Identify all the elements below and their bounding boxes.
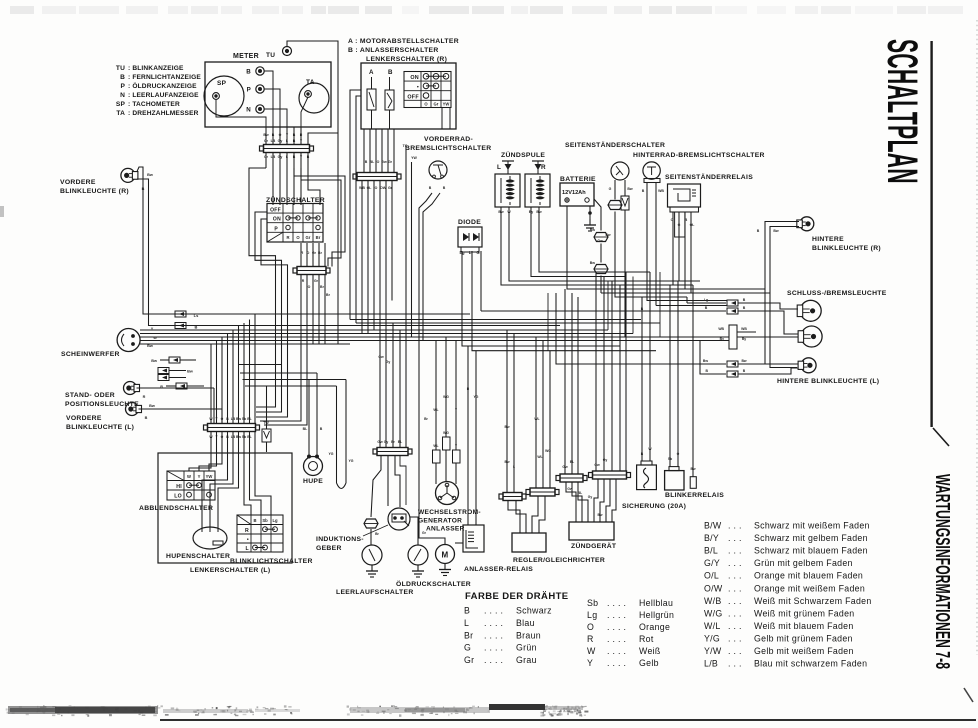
svg-text:Schwarz mit weißem Faden: Schwarz mit weißem Faden (754, 521, 870, 531)
svg-text:TW: TW (263, 421, 269, 425)
svg-text:Weiß mit Schwarzem Faden: Weiß mit Schwarzem Faden (754, 596, 872, 606)
svg-text:Y: Y (198, 474, 201, 479)
svg-text:TA: TA (306, 79, 315, 86)
svg-text:WL: WL (433, 408, 438, 412)
svg-text:By: By (742, 337, 746, 341)
svg-text:O: O (221, 417, 224, 421)
svg-text:L: L (513, 465, 515, 469)
svg-text:Gr: Gr (464, 655, 474, 665)
svg-text:Gr: Gr (264, 155, 269, 159)
svg-text:WG: WG (443, 431, 449, 435)
svg-text:Schwarz mit blauem Faden: Schwarz mit blauem Faden (754, 546, 868, 556)
svg-text:. . .: . . . (728, 633, 742, 643)
svg-text:Bw: Bw (236, 417, 241, 421)
svg-text:Sb: Sb (262, 518, 268, 523)
svg-text:L: L (469, 250, 472, 255)
svg-text:: FERNLICHTANZEIGE: : FERNLICHTANZEIGE (128, 74, 201, 81)
svg-text:. . . .: . . . . (607, 610, 626, 620)
svg-text:. . .: . . . (728, 558, 742, 568)
svg-text:. . . .: . . . . (484, 643, 503, 653)
svg-text:Bw: Bw (536, 210, 542, 214)
svg-text:O: O (307, 251, 310, 255)
svg-text:WL: WL (534, 417, 539, 421)
svg-text:B: B (195, 325, 198, 330)
svg-text:FARBE DER DRÄHTE: FARBE DER DRÄHTE (465, 591, 569, 602)
svg-text:INDUKTIONS-: INDUKTIONS- (316, 536, 364, 543)
svg-text:. . .: . . . (728, 621, 742, 631)
svg-text:DIODE: DIODE (458, 219, 481, 226)
svg-text:Bw: Bw (690, 467, 695, 471)
svg-text:W: W (153, 336, 157, 340)
svg-text:Bw: Bw (627, 187, 633, 191)
svg-text:Gy: Gy (384, 440, 389, 444)
svg-text:WB: WB (658, 189, 664, 193)
svg-text:Lg: Lg (587, 610, 597, 620)
svg-text:VORDERRAD-: VORDERRAD- (424, 136, 473, 143)
svg-text:ZÜNDGERÄT: ZÜNDGERÄT (571, 541, 617, 550)
svg-text:WG: WG (545, 449, 551, 453)
svg-text:BATTERIE: BATTERIE (560, 176, 596, 183)
svg-text:Braun: Braun (516, 630, 541, 640)
svg-text:BLINKLEUCHTE (R): BLINKLEUCHTE (R) (60, 188, 129, 195)
svg-text:ON: ON (273, 217, 281, 223)
svg-text:B: B (464, 606, 470, 616)
svg-text:L: L (497, 164, 501, 171)
svg-text:O/W: O/W (704, 583, 723, 593)
svg-text:B/L: B/L (704, 546, 718, 556)
svg-text:Gw: Gw (377, 440, 383, 444)
svg-text:SICHERUNG (20A): SICHERUNG (20A) (622, 503, 686, 510)
svg-text:Br: Br (318, 251, 323, 255)
svg-text:G: G (678, 223, 681, 227)
svg-text:HINTERE: HINTERE (812, 236, 844, 243)
svg-text:WB: WB (359, 186, 365, 190)
svg-text:Bw: Bw (147, 344, 153, 348)
svg-text:W/L: W/L (704, 621, 721, 631)
svg-text:Bw: Bw (741, 359, 746, 363)
svg-text:B: B (120, 74, 125, 81)
svg-text:L: L (464, 618, 469, 628)
svg-text:Bw: Bw (187, 370, 193, 374)
svg-text:. . . .: . . . . (484, 618, 503, 628)
svg-text:. . . .: . . . . (607, 646, 626, 656)
svg-text:Schwarz: Schwarz (516, 606, 552, 616)
svg-text:G: G (464, 643, 471, 653)
svg-text:Gr: Gr (434, 102, 439, 107)
svg-text:O: O (671, 218, 674, 222)
svg-text:OFF: OFF (270, 208, 281, 214)
svg-text:Grau: Grau (516, 655, 537, 665)
svg-text:: DREHZAHLMESSER: : DREHZAHLMESSER (128, 110, 199, 117)
svg-text:BL: BL (578, 491, 582, 495)
svg-text:. . .: . . . (728, 583, 742, 593)
svg-text:LB: LB (271, 139, 276, 143)
svg-text:YW: YW (443, 102, 450, 107)
svg-text:•: • (417, 85, 419, 91)
svg-text:WL: WL (537, 455, 542, 459)
svg-text:W: W (187, 474, 191, 479)
svg-text:Weiß mit grünem Faden: Weiß mit grünem Faden (754, 608, 855, 618)
svg-text:BL: BL (398, 440, 403, 444)
svg-text:W/B: W/B (704, 596, 722, 606)
svg-text:. . .: . . . (728, 521, 742, 531)
svg-text:. . . .: . . . . (484, 630, 503, 640)
svg-text:BLINKLICHTSCHALTER: BLINKLICHTSCHALTER (230, 558, 313, 565)
svg-text:. . .: . . . (728, 596, 742, 606)
svg-text:WB: WB (741, 327, 747, 331)
svg-text:Bw: Bw (504, 460, 509, 464)
svg-text:REGLER/GLEICHRICHTER: REGLER/GLEICHRICHTER (513, 557, 605, 564)
svg-text:Bw: Bw (149, 404, 155, 408)
svg-text:N: N (120, 92, 125, 99)
svg-text:. . . .: . . . . (607, 634, 626, 644)
svg-text:B: B (253, 518, 256, 523)
svg-text:Y/W: Y/W (704, 646, 722, 656)
svg-text:LO: LO (174, 494, 182, 500)
svg-text:Gr: Gr (312, 251, 317, 255)
svg-text:12V12Ah: 12V12Ah (562, 190, 586, 196)
svg-text:: ÖLDRUCKANZEIGE: : ÖLDRUCKANZEIGE (128, 81, 197, 90)
svg-text:YW: YW (206, 474, 213, 479)
svg-text:W/G: W/G (704, 608, 723, 618)
svg-text:. . .: . . . (728, 608, 742, 618)
svg-text:BL: BL (570, 460, 575, 464)
svg-text:Bw: Bw (598, 513, 603, 517)
svg-text:Bw: Bw (151, 359, 157, 363)
svg-text:: BLINKANZEIGE: : BLINKANZEIGE (128, 65, 184, 72)
svg-text:. . . .: . . . . (484, 655, 503, 665)
svg-text:Gw: Gw (562, 465, 568, 469)
svg-text:O/L: O/L (704, 571, 719, 581)
svg-text:Hellgrün: Hellgrün (639, 610, 674, 620)
svg-text:Weiß mit blauem Faden: Weiß mit blauem Faden (754, 621, 854, 631)
svg-text:Schwarz mit gelbem Faden: Schwarz mit gelbem Faden (754, 533, 868, 543)
svg-text:G: G (609, 187, 612, 191)
svg-text:Bw: Bw (605, 233, 610, 237)
svg-text:HI: HI (176, 484, 182, 490)
svg-text:R: R (245, 528, 249, 534)
svg-text:OFF: OFF (407, 94, 419, 100)
svg-text:ÖLDRUCKSCHALTER: ÖLDRUCKSCHALTER (396, 579, 471, 588)
svg-text:ANLASSER: ANLASSER (426, 526, 465, 533)
svg-text:A: A (369, 69, 374, 76)
svg-text:BLINKERRELAIS: BLINKERRELAIS (665, 492, 724, 499)
svg-text:Gw: Gw (381, 160, 387, 164)
svg-text:STAND- ODER: STAND- ODER (65, 392, 115, 399)
svg-text:Br: Br (326, 293, 331, 297)
svg-text:W: W (587, 646, 596, 656)
svg-text:By: By (529, 210, 534, 214)
svg-text:Gy: Gy (386, 360, 391, 364)
svg-text:. . . .: . . . . (484, 606, 503, 616)
svg-text:O: O (377, 160, 380, 164)
svg-text:Orange: Orange (639, 622, 670, 632)
svg-text:: TACHOMETER: : TACHOMETER (128, 101, 180, 108)
svg-text:By: By (720, 337, 724, 341)
svg-text:B : ANLASSERSCHALTER: B : ANLASSERSCHALTER (348, 47, 439, 54)
svg-text:SCHLUSS-/BREMSLEUCHTE: SCHLUSS-/BREMSLEUCHTE (787, 290, 887, 297)
svg-text:Grün mit gelbem Faden: Grün mit gelbem Faden (754, 558, 853, 568)
svg-text:SEITENSTÄNDERRELAIS: SEITENSTÄNDERRELAIS (665, 173, 753, 181)
svg-text:Bw: Bw (773, 229, 779, 233)
svg-text:R: R (587, 634, 594, 644)
svg-text:Gw: Gw (594, 463, 600, 467)
svg-text:Gw: Gw (567, 487, 573, 491)
svg-text:. . .: . . . (728, 646, 742, 656)
svg-text:•: • (247, 537, 249, 543)
svg-text:Gr: Gr (264, 139, 269, 143)
svg-text:LENKERSCHALTER (L): LENKERSCHALTER (L) (190, 567, 270, 574)
svg-text:OW: OW (380, 186, 387, 190)
svg-text:GEBER: GEBER (316, 545, 342, 552)
svg-text:METER: METER (233, 53, 259, 60)
svg-text:GENERATOR: GENERATOR (418, 518, 462, 525)
svg-text:B: B (246, 69, 251, 76)
svg-text:Gy: Gy (278, 139, 283, 143)
svg-text:O: O (677, 452, 680, 456)
svg-text:. . . .: . . . . (607, 658, 626, 668)
svg-text:Sb: Sb (587, 598, 598, 608)
svg-text:YG: YG (474, 395, 479, 399)
svg-text:O: O (308, 285, 311, 289)
svg-text:WG: WG (443, 395, 449, 399)
svg-text:Sb: Sb (242, 417, 246, 421)
svg-text:Y/G: Y/G (704, 633, 720, 643)
svg-text:HUPE: HUPE (303, 478, 323, 485)
svg-text:YW: YW (411, 156, 417, 160)
svg-text:. . .: . . . (728, 546, 742, 556)
svg-text:WL: WL (433, 444, 438, 448)
svg-text:Bw: Bw (590, 261, 596, 265)
svg-text:BLINKLEUCHTE (R): BLINKLEUCHTE (R) (812, 245, 881, 252)
svg-text:HINTERE BLINKLEUCHTE (L): HINTERE BLINKLEUCHTE (L) (777, 378, 879, 385)
svg-text:Weiß: Weiß (639, 646, 661, 656)
svg-text:Gy: Gy (603, 458, 608, 462)
svg-text:Orange mit blauem Faden: Orange mit blauem Faden (754, 571, 863, 581)
svg-text:Lg: Lg (272, 518, 278, 523)
svg-text:Bw: Bw (498, 210, 504, 214)
svg-text:Orange mit weißem Faden: Orange mit weißem Faden (754, 583, 865, 593)
svg-text:Gelb mit grünem Faden: Gelb mit grünem Faden (754, 633, 853, 643)
svg-text:Lg: Lg (704, 298, 708, 302)
svg-text:TU: TU (116, 65, 125, 72)
svg-text:L: L (246, 546, 250, 552)
svg-text:BLINKLEUCHTE (L): BLINKLEUCHTE (L) (66, 424, 134, 431)
svg-text:WB: WB (718, 327, 724, 331)
svg-text:B/Y: B/Y (704, 533, 719, 543)
svg-text:OL: OL (690, 223, 696, 227)
svg-text:Gr: Gr (388, 160, 393, 164)
svg-text:Gr: Gr (422, 531, 427, 535)
svg-text:. . .: . . . (728, 571, 742, 581)
svg-text:SEITENSTÄNDERSCHALTER: SEITENSTÄNDERSCHALTER (565, 141, 665, 149)
svg-text:HINTERRAD-BREMSLICHTSCHALTER: HINTERRAD-BREMSLICHTSCHALTER (633, 152, 765, 159)
svg-text:Ls: Ls (194, 313, 199, 318)
svg-text:R: R (286, 235, 289, 240)
svg-text:. . .: . . . (728, 659, 742, 669)
svg-text:TG: TG (403, 144, 408, 148)
svg-text:Bw: Bw (504, 425, 509, 429)
svg-text:LEERLAUFSCHALTER: LEERLAUFSCHALTER (336, 589, 414, 596)
svg-text:BREMSLICHTSCHALTER: BREMSLICHTSCHALTER (405, 145, 491, 152)
svg-text:Bw: Bw (147, 173, 153, 177)
svg-text:B: B (145, 416, 148, 420)
svg-text:ANLASSER-RELAIS: ANLASSER-RELAIS (464, 566, 533, 573)
svg-text:GL: GL (367, 186, 373, 190)
svg-text:Gelb: Gelb (639, 658, 659, 668)
svg-text:B: B (142, 187, 145, 191)
svg-text:ZÜNDSPULE: ZÜNDSPULE (501, 150, 545, 159)
svg-text:Gelb mit weißem Faden: Gelb mit weißem Faden (754, 646, 854, 656)
svg-text:ZÜNDSCHALTER: ZÜNDSCHALTER (266, 195, 325, 204)
svg-text:Gw: Gw (378, 355, 384, 359)
svg-text:Br: Br (464, 630, 473, 640)
svg-text:WECHSELSTROM-: WECHSELSTROM- (418, 509, 481, 516)
svg-text:VORDERE: VORDERE (60, 179, 96, 186)
svg-text:. . .: . . . (728, 533, 742, 543)
svg-text:HUPENSCHALTER: HUPENSCHALTER (166, 553, 230, 560)
svg-text:G: G (476, 250, 479, 255)
svg-text:. . . .: . . . . (607, 622, 626, 632)
svg-text:Gr: Gr (314, 279, 319, 283)
svg-text:Gr: Gr (388, 186, 393, 190)
svg-text:Y: Y (587, 658, 593, 668)
svg-text:VORDERE: VORDERE (66, 415, 102, 422)
svg-text:YG: YG (348, 459, 353, 463)
svg-text:ON: ON (410, 75, 419, 81)
svg-text:G/Y: G/Y (704, 558, 720, 568)
svg-text:R: R (143, 395, 146, 399)
svg-text:YG: YG (328, 452, 333, 456)
svg-text:LB: LB (271, 155, 276, 159)
svg-text:O: O (279, 133, 282, 137)
svg-text:N: N (246, 107, 251, 114)
svg-text:O: O (375, 186, 378, 190)
svg-text:: LEERLAUFANZEIGE: : LEERLAUFANZEIGE (128, 92, 199, 99)
svg-text:TA: TA (116, 110, 125, 117)
svg-text:WARTUNGSINFORMATIONEN 7-8: WARTUNGSINFORMATIONEN 7-8 (931, 474, 954, 669)
svg-text:O: O (587, 622, 594, 632)
svg-text:P: P (120, 83, 125, 90)
svg-text:LENKERSCHALTER (R): LENKERSCHALTER (R) (366, 56, 447, 63)
svg-text:Hellblau: Hellblau (639, 598, 673, 608)
svg-text:Gw: Gw (597, 239, 603, 243)
svg-text:Bw: Bw (263, 133, 269, 137)
svg-text:SP: SP (217, 80, 227, 87)
svg-text:SCHEINWERFER: SCHEINWERFER (61, 351, 120, 358)
svg-text:L/B: L/B (704, 659, 718, 669)
svg-text:SP: SP (116, 101, 126, 108)
svg-text:Gy: Gy (278, 155, 283, 159)
svg-text:Blau: Blau (516, 618, 535, 628)
svg-text:M: M (442, 551, 449, 560)
svg-text:Sb: Sb (668, 457, 672, 461)
svg-text:Gr: Gr (306, 235, 311, 240)
svg-text:. . . .: . . . . (607, 598, 626, 608)
svg-text:Bw: Bw (703, 359, 708, 363)
svg-text:Br: Br (320, 285, 325, 289)
svg-text:Grün: Grün (516, 643, 537, 653)
svg-text:B: B (388, 69, 393, 76)
svg-text:Bw: Bw (590, 228, 596, 232)
svg-text:P: P (247, 87, 251, 94)
svg-text:Br: Br (316, 235, 321, 240)
svg-text:Gy: Gy (588, 495, 593, 499)
svg-text:TU: TU (266, 52, 275, 59)
svg-text:R: R (541, 164, 546, 171)
svg-text:Rot: Rot (639, 634, 654, 644)
svg-text:Blau mit schwarzem Faden: Blau mit schwarzem Faden (754, 659, 867, 669)
svg-text:B/W: B/W (704, 521, 722, 531)
svg-text:SCHALTPLAN: SCHALTPLAN (878, 39, 926, 184)
svg-text:Y: Y (151, 327, 154, 331)
svg-text:P: P (274, 226, 278, 232)
svg-text:BL: BL (247, 417, 252, 421)
svg-text:A : MOTORABSTELLSCHALTER: A : MOTORABSTELLSCHALTER (348, 38, 459, 45)
